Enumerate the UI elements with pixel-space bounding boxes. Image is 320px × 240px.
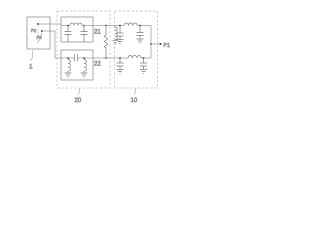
svg-text:P2: P2: [31, 28, 37, 33]
svg-text:10: 10: [131, 98, 138, 104]
wire L10b to corner: [141, 57, 151, 59]
node D junction: [83, 57, 85, 59]
switch lever dashed (alternate position to P2): [37, 26, 39, 40]
ground G10a: [117, 40, 124, 44]
capacitor C10a: [117, 26, 124, 40]
node P1: [160, 43, 162, 45]
node E top rail junction: [105, 25, 107, 27]
inductor L22b shunt: [84, 58, 86, 73]
node K junction: [150, 43, 152, 45]
svg-text:1: 1: [29, 63, 33, 70]
capacitor C21a: [65, 26, 72, 43]
svg-text:20: 20: [75, 98, 82, 104]
wire top rail into box 10: [106, 25, 124, 27]
svg-text:22: 22: [94, 62, 101, 68]
ground G10c: [117, 70, 124, 74]
resistor R1: [104, 26, 108, 59]
ground G22a: [65, 73, 72, 77]
leader to label 20: [78, 89, 81, 96]
inductor L10b: [128, 55, 141, 58]
wire node B to rail right: [82, 25, 106, 27]
inductor L10a: [124, 23, 137, 26]
capacitor C10d: [140, 58, 147, 70]
wire cap to node D: [78, 57, 106, 59]
ground G10d: [140, 70, 147, 74]
capacitor C21b: [81, 26, 88, 43]
capacitor C22 series: [75, 54, 78, 62]
leader to label 10: [134, 89, 137, 96]
ground G22b: [81, 73, 88, 77]
wire P2 to node A: [38, 24, 70, 26]
wire L10a to corner: [137, 25, 151, 27]
ground G10b: [137, 39, 144, 43]
filter box 21: [61, 17, 93, 42]
node H junction: [139, 25, 141, 27]
capacitor C10c: [117, 58, 124, 70]
node G junction: [119, 25, 121, 27]
wire bottom rail into box 10: [106, 57, 128, 59]
switch lever arm to P3: [37, 33, 42, 44]
node P3: [41, 30, 43, 32]
switch box 1: [27, 17, 50, 49]
leader to label 1: [31, 50, 33, 61]
capacitor C10b: [137, 26, 144, 40]
ground G10e: [112, 41, 118, 44]
inductor L21: [70, 23, 82, 26]
node B junction: [83, 25, 85, 27]
svg-text:P3: P3: [37, 35, 43, 40]
inductor L10c shunt: [115, 26, 117, 40]
svg-text:P1: P1: [164, 43, 170, 49]
filter box 22: [61, 50, 93, 80]
node F bottom rail junction: [105, 57, 107, 59]
node A junction: [67, 25, 69, 27]
node C junction: [67, 57, 69, 59]
wire P3 down and to box 22: [42, 31, 74, 58]
inductor L22a shunt: [68, 58, 70, 73]
wire output vertical tie: [150, 26, 152, 59]
node J junction: [143, 57, 145, 59]
node P2: [37, 23, 39, 25]
node I junction: [119, 57, 121, 59]
dashed box 20: [57, 11, 110, 88]
svg-text:21: 21: [94, 30, 101, 36]
wire stub to P1: [151, 43, 161, 45]
dashed box 10: [115, 11, 158, 88]
